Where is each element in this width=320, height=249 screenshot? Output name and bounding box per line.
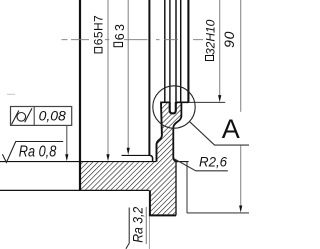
- roughness Ra 3,2 (rotated): [126, 208, 129, 249]
- svg-text:R2,6: R2,6: [199, 154, 227, 170]
- svg-text:0,08: 0,08: [39, 107, 66, 123]
- wire: face stub right y=161.6: [178, 161, 189, 163]
- svg-text:63: 63: [113, 22, 127, 40]
- leader to A with shelf: [190, 122, 249, 145]
- centerline dash-dot y=39.7: [62, 39, 204, 41]
- cylindricity symbol: [17, 113, 26, 122]
- wire: thin line x=180.9: [180, 0, 182, 102]
- tolerance frame: [11, 107, 72, 126]
- wire: step line y=155.4: [122, 154, 151, 156]
- detail circle: [153, 86, 195, 128]
- wall left edge: [157, 103, 162, 162]
- wire: top face edge y=102.3: [160, 101, 188, 103]
- wire: left outer thick line x=80: [79, 0, 81, 191]
- boss left thick edge: [149, 190, 151, 215]
- roughness Ra 0,8: [2, 142, 63, 163]
- wire: extension line y=102.4 right: [188, 101, 225, 103]
- dim text 63 with square symbol: [114, 42, 123, 46]
- dim text 65H7 with square symbol: [95, 47, 102, 53]
- frame leader + arrow: [66, 125, 68, 159]
- dimension line 90 x=240.7: [240, 0, 242, 112]
- boss bottom thick edge: [149, 214, 176, 216]
- dimension line 65H7 x=107.8: [107, 0, 109, 158]
- wall right edge with S-curve and fillet R2,6: [173, 102, 181, 161]
- hatched metal section: flange + boss + wall: [81, 102, 181, 215]
- label R2,6 with leader and underline: [175, 159, 228, 171]
- wire: thin line x=169.8: [169, 0, 171, 102]
- svg-text:Ra 0,8: Ra 0,8: [19, 144, 57, 161]
- wire: gray projection x=149.4 bottom: [148, 216, 150, 249]
- wire: flange face y=161.6: [0, 161, 156, 163]
- dimension line 32H10 x=219.7: [219, 0, 221, 99]
- wire: right outer thick line x=189.4: [187, 0, 189, 103]
- dimension line 63 x=127.9: [127, 0, 129, 152]
- svg-text:Ra 3,2: Ra 3,2: [131, 206, 146, 242]
- wire: bore wall thick line x=149.4: [148, 0, 150, 156]
- svg-text:65H7: 65H7: [92, 15, 106, 45]
- wire: extension vertical x=186.2: [186, 162, 188, 213]
- boss right edge: [175, 162, 177, 216]
- dim text 32H10 with square symbol: [206, 56, 214, 61]
- svg-text:90: 90: [221, 31, 237, 48]
- node step corner at (149.4,155.4): [150, 155, 153, 161]
- groove slot U outline: [170, 102, 176, 113]
- wire: thin line x=176: [175, 0, 177, 102]
- wire: thin line x=165: [164, 0, 166, 102]
- svg-text:A: A: [222, 114, 240, 144]
- wire: extension horizontal y=213: [187, 212, 249, 214]
- faint dash left: [7, 93, 15, 95]
- svg-text:32H10: 32H10: [204, 19, 218, 55]
- wire: flange bottom y=190.4: [0, 189, 149, 191]
